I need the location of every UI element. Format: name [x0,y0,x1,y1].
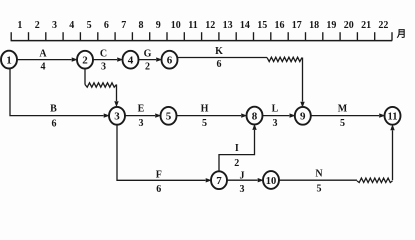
svg-text:14: 14 [240,20,250,31]
svg-text:7: 7 [216,175,222,187]
svg-text:22: 22 [378,20,388,31]
svg-text:3: 3 [101,62,106,73]
svg-text:6: 6 [167,55,173,67]
wire N vertical up to node11 [392,130,394,180]
arrowhead J [258,178,264,182]
svg-text:E: E [138,103,145,114]
arrowhead I into node8 [252,124,256,130]
svg-text:5: 5 [202,118,207,129]
wave K (free float squiggle) [267,57,302,61]
svg-text:11: 11 [188,20,197,31]
svg-text:20: 20 [344,20,354,31]
arrowhead L [290,113,296,117]
svg-text:4: 4 [41,62,46,73]
svg-text:11: 11 [388,112,398,123]
svg-text:5: 5 [317,184,322,195]
arrowhead G [156,57,162,61]
svg-text:5: 5 [87,20,92,31]
node 6 [162,51,178,69]
svg-text:2: 2 [35,20,40,31]
svg-text:H: H [201,103,209,114]
svg-text:3: 3 [240,184,245,195]
node 1 [1,51,17,69]
svg-text:A: A [39,49,47,60]
ruler numbers [17,20,388,31]
node 5 [161,107,177,125]
node 11 [385,107,401,125]
svg-text:8: 8 [252,111,258,123]
svg-text:4: 4 [69,20,74,31]
svg-text:10: 10 [266,176,277,187]
node 7 [211,171,227,189]
wire dummy 2-3 vertical into node3 [116,85,118,102]
svg-text:M: M [338,103,348,114]
svg-text:5: 5 [340,118,345,129]
svg-text:3: 3 [52,20,57,31]
node 10 [263,171,279,189]
svg-text:2: 2 [234,158,239,169]
svg-text:B: B [50,104,57,115]
node 2 [77,51,93,69]
wire C: node2 to node4 [92,59,117,61]
svg-text:9: 9 [156,20,161,31]
svg-text:J: J [240,170,245,181]
svg-text:7: 7 [121,20,126,31]
arrowhead E [155,113,161,117]
node 4 [123,51,139,69]
arrowhead dummy into node3 [114,101,118,107]
svg-text:4: 4 [128,55,134,67]
svg-text:18: 18 [309,20,319,31]
arrowhead N into node11 [390,124,394,130]
svg-text:17: 17 [292,20,302,31]
svg-text:G: G [144,49,152,60]
arrowhead A [72,57,78,61]
node 8 [247,107,263,125]
svg-text:19: 19 [326,20,336,31]
wire G: node4 to node6 [138,59,156,61]
arrowhead F into node7 [206,178,212,182]
svg-text:1: 1 [6,55,12,67]
svg-text:I: I [235,143,239,154]
arrowhead C [117,57,123,61]
wire A: node1 to node2 [16,59,71,61]
ruler ticks [11,32,392,40]
svg-text:2: 2 [82,55,88,67]
svg-text:2: 2 [145,62,150,73]
svg-text:8: 8 [139,20,144,31]
svg-text:F: F [156,170,162,181]
svg-text:6: 6 [156,184,161,195]
svg-text:3: 3 [139,118,144,129]
svg-text:C: C [100,49,107,60]
wire J: node7 to node10 [226,179,257,181]
arrowhead H [241,113,247,117]
svg-text:6: 6 [52,118,57,129]
svg-text:21: 21 [361,20,371,31]
svg-text:1: 1 [17,20,22,31]
svg-text:15: 15 [257,20,267,31]
wire M: node9 to node11 [310,115,379,117]
svg-text:13: 13 [223,20,233,31]
wire F: node3 down and right to node7 [117,124,206,180]
svg-text:3: 3 [273,118,278,129]
wire K vertical down to node9 [302,58,304,102]
svg-text:6: 6 [217,59,222,70]
arrowhead K into node9 [300,102,304,108]
svg-text:16: 16 [275,20,285,31]
svg-text:12: 12 [205,20,215,31]
wave N [357,178,393,182]
svg-text:3: 3 [114,111,120,123]
wire K horizontal from node6 [177,57,267,59]
ruler baseline [11,40,393,42]
svg-text:N: N [315,168,323,179]
svg-text:10: 10 [171,20,181,31]
svg-text:5: 5 [166,111,172,123]
wire I: node7 up, right, up to node8 [219,130,255,172]
arrowhead B into node3 [104,113,110,117]
svg-text:6: 6 [104,20,109,31]
node 9 [295,107,311,125]
svg-text:月: 月 [396,29,407,40]
wire L: node8 to node9 [262,115,290,117]
svg-text:9: 9 [300,111,306,123]
wave dummy 2-3 [85,83,117,87]
wire E: node3 to node5 [124,115,155,117]
wire H: node5 to node8 [176,115,241,117]
node 3 [109,107,125,125]
wire B vertical from node1 [10,68,104,116]
wire dummy 2-3 vertical from node2 [84,68,86,84]
svg-text:L: L [272,103,279,114]
arrowhead M [379,113,385,117]
wire N horizontal from node10 [278,179,357,181]
svg-text:K: K [215,46,223,57]
